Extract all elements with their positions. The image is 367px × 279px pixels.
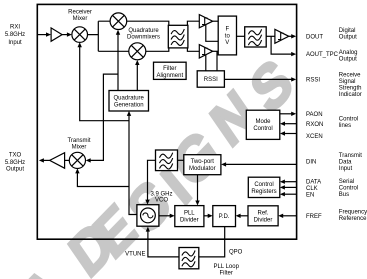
svg-text:Registers: Registers bbox=[251, 189, 276, 195]
mixer Receiver Mixer label bbox=[68, 10, 92, 23]
svg-text:A: A bbox=[10, 254, 75, 279]
wire limiter1 lower tap to F-to-V bbox=[206, 25, 218, 42]
wire RXON bbox=[284, 123, 296, 125]
svg-text:Divider: Divider bbox=[180, 217, 199, 223]
wire XCEN bbox=[284, 133, 296, 135]
label Quadrature Downmixers bbox=[127, 28, 160, 40]
svg-text:RSSI: RSSI bbox=[306, 78, 320, 84]
wire quad gen to downmixer Q LO bbox=[136, 63, 138, 91]
svg-text:DOUT: DOUT bbox=[306, 34, 323, 40]
wire LO node to receiver mixer bbox=[80, 45, 129, 121]
wire PLL divider to PD bbox=[204, 215, 208, 217]
wire CLK bbox=[284, 186, 296, 188]
svg-text:Output: Output bbox=[6, 167, 24, 173]
wire DIN to modulator bbox=[226, 163, 296, 165]
wire FREF to ref divider bbox=[283, 215, 296, 217]
svg-text:Control: Control bbox=[253, 126, 272, 132]
svg-text:Output: Output bbox=[339, 57, 357, 63]
svg-text:VTUNE: VTUNE bbox=[125, 252, 145, 258]
wire DOUT bbox=[289, 35, 292, 37]
wire I LO tap to transmit mixer bbox=[88, 74, 118, 160]
svg-text:Receiver: Receiver bbox=[68, 10, 92, 16]
svg-text:Alignment: Alignment bbox=[156, 73, 183, 79]
amplifier limiter 2 bbox=[199, 45, 212, 58]
svg-text:VCO: VCO bbox=[155, 198, 168, 204]
svg-text:V: V bbox=[225, 40, 229, 46]
svg-text:Receive: Receive bbox=[339, 73, 361, 79]
svg-text:Transmit: Transmit bbox=[67, 138, 90, 144]
svg-text:Input: Input bbox=[339, 166, 353, 172]
wire F-to-V output to post filter bbox=[237, 35, 245, 37]
wire DATA bbox=[284, 181, 296, 183]
wire PAON bbox=[280, 113, 292, 115]
watermark bbox=[10, 46, 303, 279]
svg-text:F: F bbox=[225, 27, 229, 33]
svg-text:AOUT_TPC: AOUT_TPC bbox=[306, 52, 339, 58]
svg-text:Reference: Reference bbox=[339, 216, 367, 222]
block Filter Alignment bbox=[154, 62, 187, 79]
block Ref Divider bbox=[248, 206, 278, 226]
filter post-detection filter bbox=[245, 27, 267, 47]
label Analog Output bbox=[339, 50, 358, 62]
block Mode Control bbox=[246, 110, 279, 139]
block RSSI bbox=[197, 71, 224, 87]
svg-text:Transmit: Transmit bbox=[339, 153, 362, 159]
filter modulation filter bbox=[156, 150, 178, 171]
svg-text:Bus: Bus bbox=[339, 192, 349, 198]
block Two-port Modulator bbox=[184, 155, 221, 175]
svg-text:P.D.: P.D. bbox=[219, 214, 230, 220]
svg-text:Two-port: Two-port bbox=[191, 159, 215, 165]
block F to V converter bbox=[218, 16, 236, 55]
wire TXO output bbox=[44, 159, 50, 161]
svg-text:5.8GHz: 5.8GHz bbox=[5, 32, 25, 38]
wire quad gen to downmixer I LO bbox=[117, 32, 119, 90]
svg-text:Downmixers: Downmixers bbox=[127, 35, 160, 41]
svg-text:RXON: RXON bbox=[306, 122, 323, 128]
svg-text:Digital: Digital bbox=[339, 28, 356, 34]
svg-text:EN: EN bbox=[306, 192, 314, 198]
svg-text:XCEN: XCEN bbox=[306, 134, 323, 140]
svg-text:PAON: PAON bbox=[306, 112, 323, 118]
node RXI input label bbox=[5, 25, 25, 46]
wire LO branch to transmit mixer LO bbox=[77, 171, 129, 187]
svg-text:Filter: Filter bbox=[220, 271, 233, 277]
svg-text:to: to bbox=[225, 33, 231, 39]
wire limiter2 taps to RSSI bbox=[206, 51, 217, 71]
svg-text:Mode: Mode bbox=[255, 119, 271, 125]
filter IF bandpass filter bbox=[168, 25, 188, 48]
svg-text:Frequency: Frequency bbox=[339, 209, 367, 215]
svg-text:Mixer: Mixer bbox=[72, 145, 87, 151]
svg-text:Data: Data bbox=[339, 160, 352, 166]
svg-text:Control: Control bbox=[254, 182, 273, 188]
block PD phase detector bbox=[213, 206, 236, 227]
label Serial Control Bus bbox=[339, 179, 358, 198]
label Control lines bbox=[339, 116, 358, 128]
wire PD to loop filter QPO bbox=[199, 227, 225, 257]
svg-text:Output: Output bbox=[339, 34, 357, 40]
wire RXI input to LNA bbox=[38, 34, 46, 36]
svg-text:PLL Loop: PLL Loop bbox=[213, 264, 239, 270]
svg-text:DIN: DIN bbox=[306, 160, 316, 166]
amplifier TX PA bbox=[50, 153, 65, 169]
svg-text:Signal: Signal bbox=[339, 79, 356, 85]
svg-text:Modulator: Modulator bbox=[189, 166, 216, 172]
node TXO output label bbox=[5, 153, 25, 173]
filter PLL loop filter bbox=[179, 248, 199, 269]
block Quadrature Generation bbox=[109, 91, 149, 112]
svg-text:Mixer: Mixer bbox=[73, 16, 88, 22]
wire receiver mixer output split to downmixers bbox=[88, 21, 129, 51]
label 3.9 GHz VCO bbox=[150, 192, 172, 204]
mixer quadrature downmixer Q bbox=[129, 43, 146, 60]
wire modulation filter to VCO bbox=[148, 160, 156, 202]
outer chip boundary box bbox=[37, 4, 296, 239]
oscillator 3.9 GHz VCO bbox=[137, 205, 159, 227]
wire EN bbox=[284, 193, 296, 195]
wire RSSI output to pin bbox=[224, 78, 291, 80]
wire loop filter to VTUNE and VCO bbox=[148, 229, 179, 257]
svg-text:RSSI: RSSI bbox=[204, 77, 218, 83]
wire AOUT_TPC tap bbox=[271, 36, 291, 54]
wire downmixer I output to IF filter bbox=[127, 21, 200, 25]
wire modulator to modulation filter bbox=[178, 159, 184, 161]
wire limiter2 to F-to-V bbox=[213, 50, 219, 52]
svg-text:RXI: RXI bbox=[10, 25, 20, 31]
mixer Transmit Mixer label bbox=[67, 138, 90, 150]
label Receive Signal Strength Indicator bbox=[339, 73, 362, 98]
mixer Transmit Mixer bbox=[69, 152, 85, 168]
svg-text:Indicator: Indicator bbox=[339, 92, 362, 98]
svg-text:Quadrature: Quadrature bbox=[128, 28, 159, 34]
block Control Registers bbox=[248, 177, 279, 197]
wire LNA to receiver mixer bbox=[62, 34, 67, 36]
label Frequency Reference bbox=[339, 209, 367, 221]
wire ref divider to PD bbox=[240, 215, 248, 217]
mixer quadrature downmixer I bbox=[110, 13, 127, 30]
label Transmit Data Input bbox=[339, 153, 362, 172]
mixer Receiver Mixer bbox=[72, 27, 88, 43]
amplifier RX LNA bbox=[51, 28, 62, 41]
svg-text:Filter: Filter bbox=[163, 66, 176, 72]
svg-text:TXO: TXO bbox=[9, 153, 22, 159]
wire limiter1 to F-to-V bbox=[213, 20, 219, 22]
svg-text:DATA: DATA bbox=[306, 179, 321, 185]
amplifier limiter 1 bbox=[199, 15, 212, 28]
wire VCO LO distribution trunk bbox=[129, 113, 137, 214]
svg-text:Input: Input bbox=[8, 40, 22, 46]
label Digital Output bbox=[339, 28, 357, 40]
svg-text:Analog: Analog bbox=[339, 50, 358, 56]
wire VCO to PLL divider bbox=[159, 215, 170, 217]
svg-text:5.8GHz: 5.8GHz bbox=[5, 160, 25, 166]
svg-text:lines: lines bbox=[339, 123, 351, 129]
svg-text:CLK: CLK bbox=[306, 186, 318, 192]
svg-text:Control: Control bbox=[339, 116, 358, 122]
wire downmixer Q output to IF filter bbox=[146, 48, 200, 51]
block PLL Divider bbox=[175, 206, 204, 227]
svg-text:Control: Control bbox=[339, 185, 358, 191]
wire post filter to output amp bbox=[266, 35, 275, 37]
label PLL Loop Filter bbox=[213, 264, 239, 277]
wire transmit mixer to PA bbox=[65, 159, 70, 161]
svg-text:Quadrature: Quadrature bbox=[114, 96, 145, 102]
svg-text:Strength: Strength bbox=[339, 86, 362, 92]
svg-text:Divider: Divider bbox=[254, 217, 273, 223]
wire modulator to PLL divider bbox=[197, 175, 199, 203]
svg-text:Generation: Generation bbox=[114, 102, 144, 108]
svg-text:Ref.: Ref. bbox=[257, 211, 268, 217]
svg-text:FREF: FREF bbox=[306, 214, 322, 220]
svg-text:PLL: PLL bbox=[184, 211, 195, 217]
svg-text:Serial: Serial bbox=[339, 179, 354, 185]
amplifier data slicer bbox=[275, 29, 289, 43]
svg-text:QPO: QPO bbox=[229, 250, 243, 256]
